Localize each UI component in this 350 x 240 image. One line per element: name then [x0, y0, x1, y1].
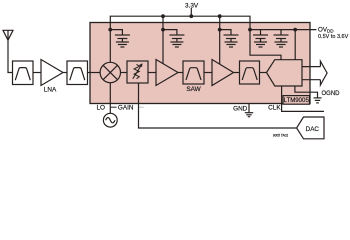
svg-text:DAC: DAC [306, 126, 320, 133]
svg-text:OVDD: OVDD [318, 27, 334, 34]
svg-text:GND: GND [233, 105, 248, 112]
svg-text:GAIN: GAIN [118, 105, 134, 112]
svg-text:CLK: CLK [268, 105, 281, 112]
svg-text:3.3V: 3.3V [185, 3, 199, 10]
svg-text:OGND: OGND [322, 91, 341, 97]
svg-text:LTM9005: LTM9005 [284, 97, 310, 104]
svg-text:LNA: LNA [44, 86, 57, 93]
svg-text:LO: LO [96, 104, 105, 111]
svg-text:9005 TA01: 9005 TA01 [273, 133, 289, 137]
svg-text:0.5V to 3.6V: 0.5V to 3.6V [318, 34, 349, 40]
svg-text:SAW: SAW [186, 86, 201, 93]
